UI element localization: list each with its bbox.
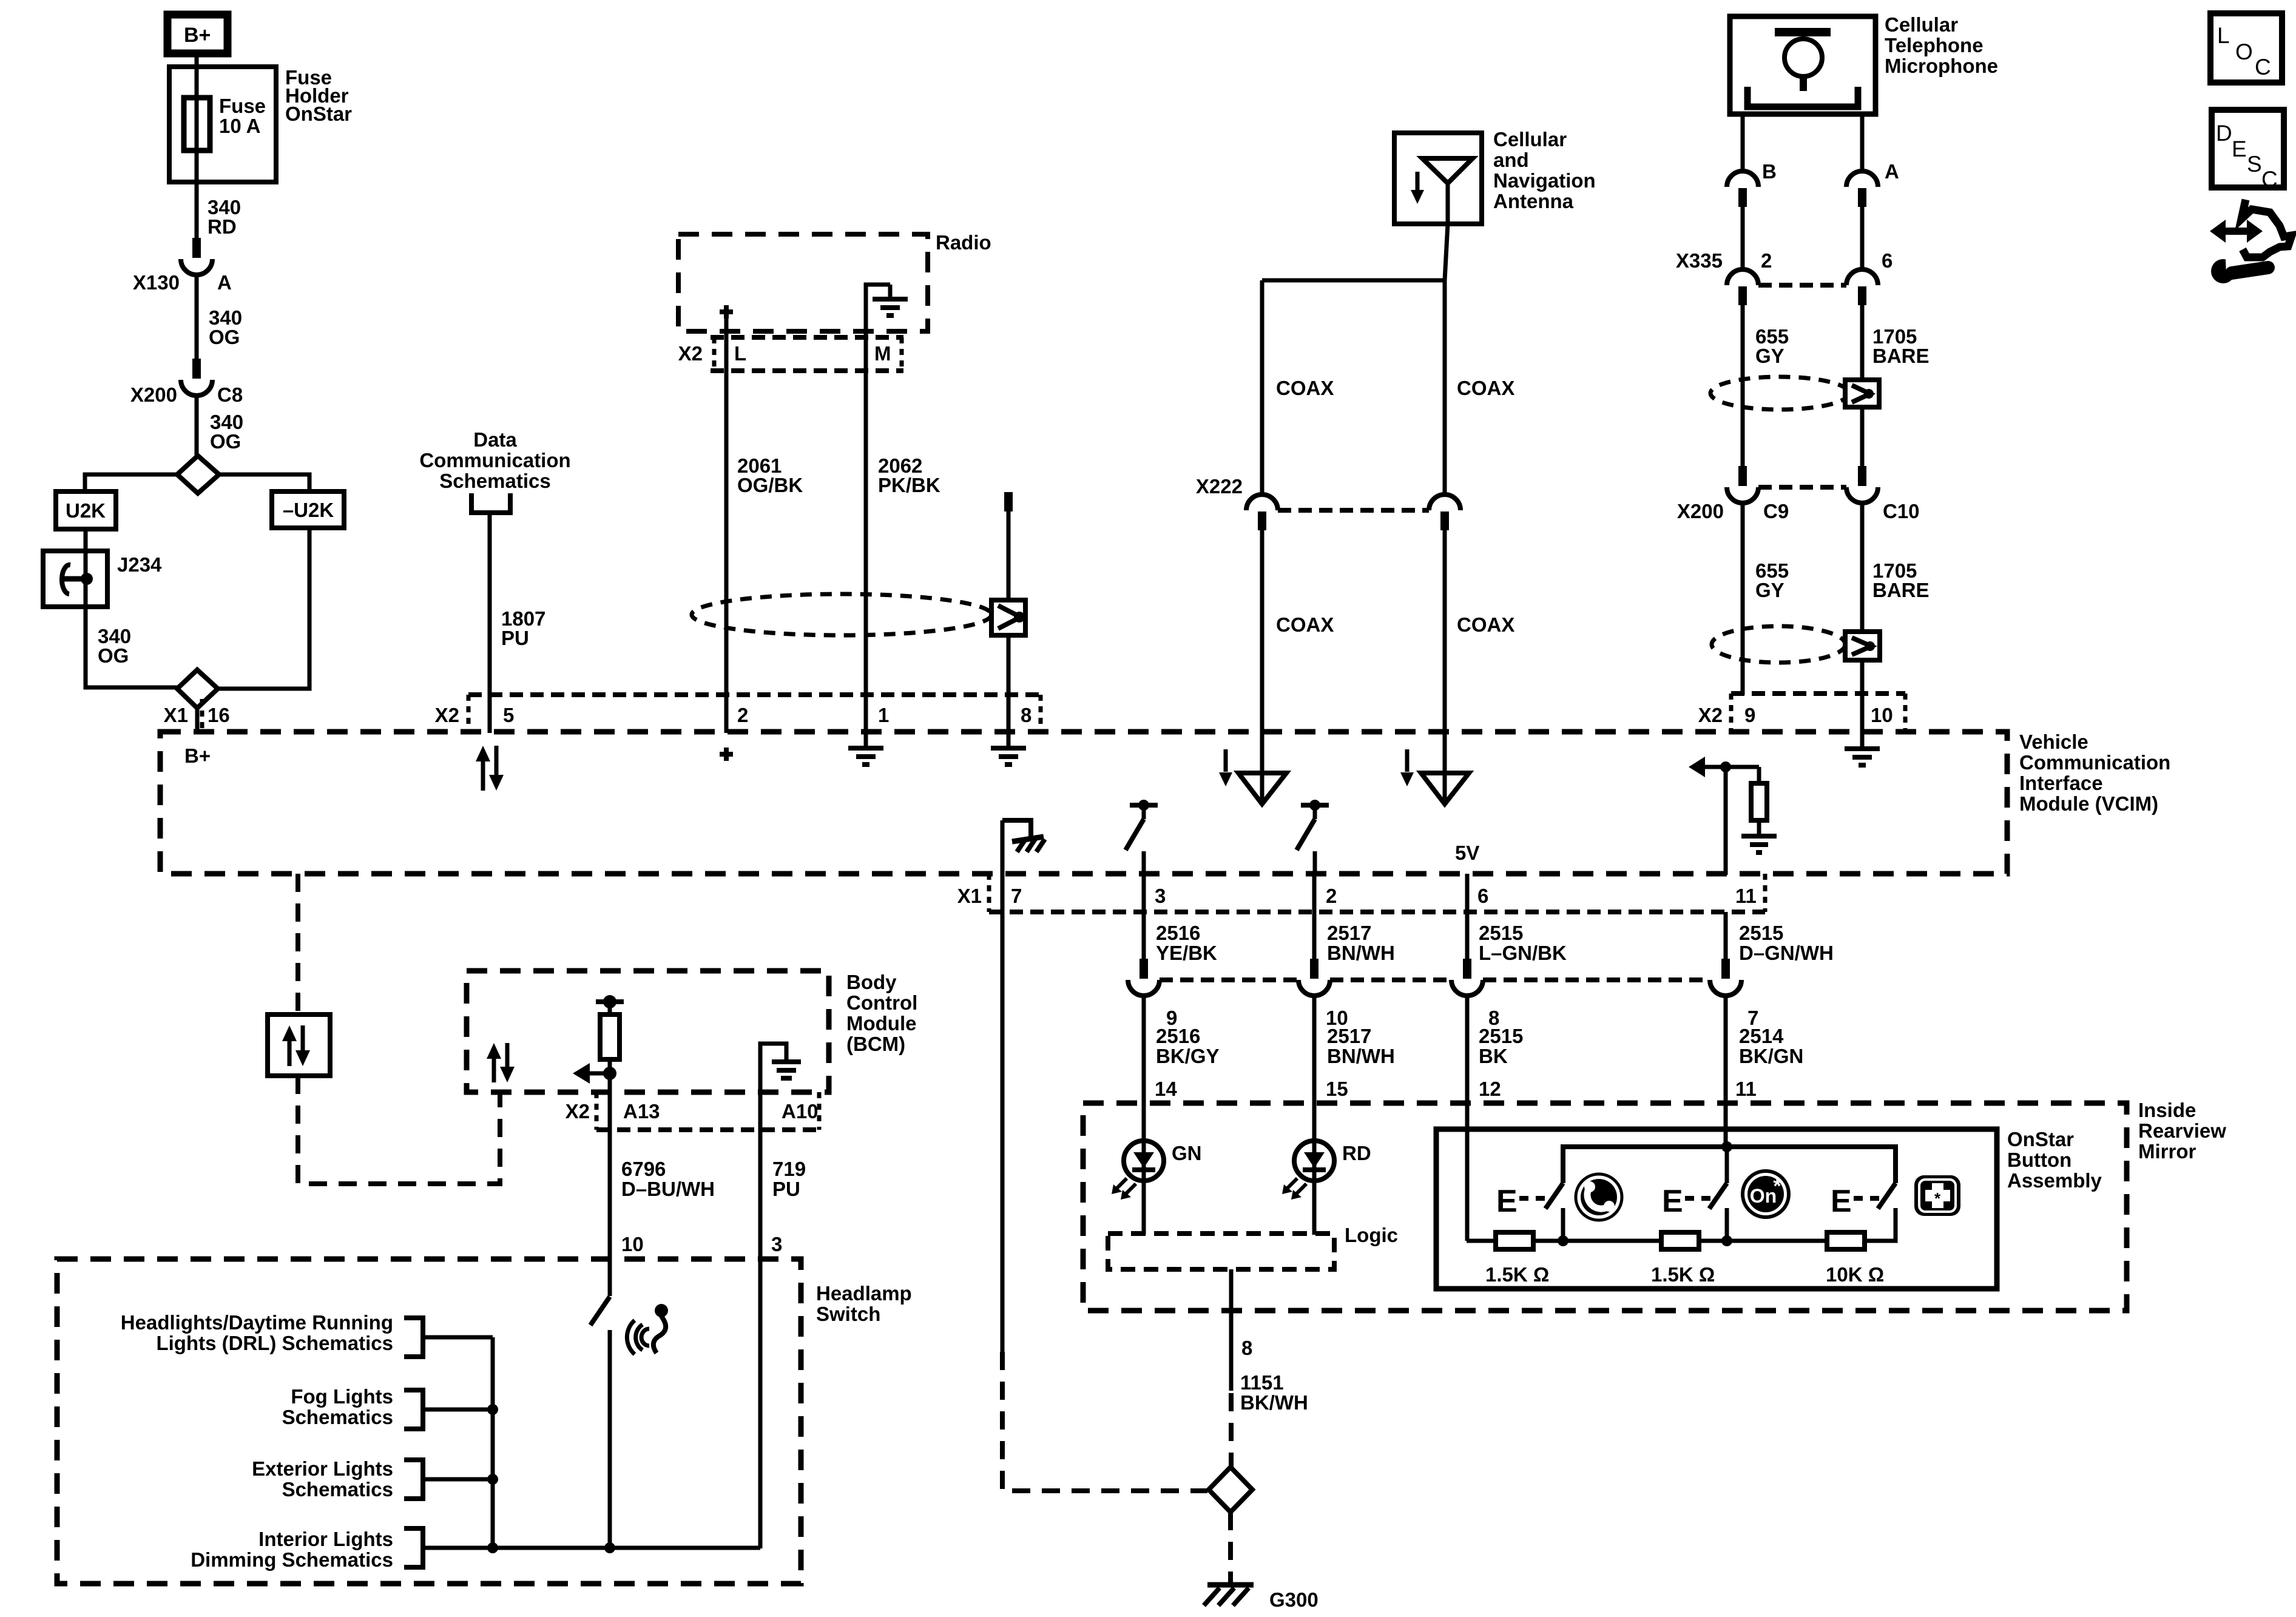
svg-text:GY: GY: [1755, 579, 1784, 601]
wire B to X335: [1741, 207, 1745, 269]
svg-text:*: *: [1934, 1189, 1941, 1207]
wire 6796 D-BU/WH: [608, 1130, 612, 1296]
connector pin7b: [1721, 959, 1730, 979]
svg-text:OG/BK: OG/BK: [737, 474, 803, 496]
emergency cross icon: [1914, 1175, 1960, 1216]
svg-text:12: 12: [1479, 1078, 1501, 1100]
antenna terminal triangle left: [1260, 732, 1264, 802]
svg-text:2: 2: [1761, 249, 1772, 272]
svg-text:Navigation: Navigation: [1493, 169, 1596, 192]
svg-text:Logic: Logic: [1345, 1224, 1398, 1246]
svg-text:X2: X2: [1698, 704, 1723, 726]
coax right upper: [1443, 280, 1447, 495]
svg-text:15: 15: [1326, 1078, 1348, 1100]
wire 2516 YE/BK: [1142, 874, 1146, 960]
bus vertical: [491, 1337, 495, 1548]
svg-text:E: E: [1831, 1184, 1852, 1219]
LED RD emission arrows: [1285, 1178, 1297, 1190]
svg-text:7: 7: [1011, 885, 1022, 907]
wire X200 to splice: [195, 395, 199, 456]
wire 1705 BARE upper: [1860, 305, 1865, 380]
svg-text:E: E: [1496, 1184, 1518, 1219]
inside rearview mirror dashed box: [1083, 1103, 2127, 1311]
svg-text:C: C: [2255, 55, 2271, 79]
shield ellipse lower: [1712, 626, 1845, 663]
button bus top rail: [1563, 1147, 1896, 1183]
svg-text:BN/WH: BN/WH: [1327, 1045, 1395, 1067]
svg-text:Fuse: Fuse: [219, 95, 266, 117]
svg-text:Button: Button: [2007, 1149, 2071, 1171]
wire logic output 8: [1229, 1269, 1234, 1391]
svg-text:Switch: Switch: [816, 1303, 880, 1325]
svg-text:Communication: Communication: [419, 449, 570, 471]
wire splice to VCIM X1-16: [195, 708, 200, 733]
fuse F1 10A element: [184, 98, 210, 150]
svg-text:A: A: [1885, 160, 1899, 183]
svg-text:L: L: [734, 342, 746, 365]
svg-text:Lights (DRL) Schematics: Lights (DRL) Schematics: [156, 1332, 393, 1354]
resistor R3 10K: [1827, 1232, 1865, 1249]
svg-text:B+: B+: [184, 24, 211, 47]
wire -U2K to lower splice: [218, 528, 309, 689]
radio ground symbol: [866, 285, 890, 331]
svg-text:C10: C10: [1883, 500, 1920, 522]
wire 655 GY upper: [1741, 305, 1745, 468]
wire through fuse holder: [195, 67, 199, 238]
svg-text:O: O: [2235, 39, 2253, 64]
radio X2 connector box: [711, 335, 903, 340]
coax left lower: [1260, 530, 1264, 733]
antenna terminal triangle right: [1443, 732, 1447, 802]
wire A13 inside BCM: [608, 1073, 612, 1131]
svg-text:Body: Body: [846, 971, 897, 993]
dashed link VCIM to arrows box: [295, 874, 300, 1014]
svg-text:2515: 2515: [1739, 922, 1783, 944]
shield ellipse upper: [1710, 377, 1849, 410]
body control module dashed box: [467, 971, 829, 1092]
wire 8 antenna lead terminal: [1004, 492, 1013, 511]
resistor R1 1.5K: [1496, 1232, 1533, 1249]
svg-text:Interface: Interface: [2019, 772, 2103, 794]
wire pin12 to bus: [1465, 1129, 1470, 1241]
ground inside VCIM pin1: [864, 732, 868, 748]
svg-text:2515: 2515: [1479, 1025, 1523, 1047]
svg-text:11: 11: [1735, 885, 1757, 907]
svg-text:5V: 5V: [1455, 842, 1479, 864]
splice S2 diamond: [177, 670, 218, 708]
svg-text:C9: C9: [1763, 500, 1789, 522]
svg-text:Mirror: Mirror: [2138, 1140, 2196, 1163]
wire 719 PU: [758, 1130, 763, 1548]
ground inside VCIM pin10: [1860, 732, 1865, 749]
svg-text:Cellular: Cellular: [1493, 128, 1567, 150]
svg-text:14: 14: [1155, 1078, 1177, 1100]
svg-text:OG: OG: [209, 326, 240, 348]
antenna terminal arrow left: [1224, 749, 1228, 772]
svg-text:719: 719: [772, 1158, 806, 1180]
svg-text:6: 6: [1882, 249, 1893, 272]
svg-text:X222: X222: [1196, 475, 1243, 498]
ground inside VCIM pin8: [1007, 732, 1011, 748]
svg-text:Rearview: Rearview: [2138, 1119, 2226, 1142]
dashed link arrows box to BCM: [298, 1076, 500, 1184]
connector pin10: [1310, 959, 1319, 979]
svg-text:6796: 6796: [621, 1158, 666, 1180]
ground G300: [1207, 1582, 1254, 1588]
radio dashed box: [678, 234, 928, 331]
svg-text:Exterior Lights: Exterior Lights: [252, 1457, 393, 1480]
svg-text:3: 3: [1155, 885, 1166, 907]
svg-text:X2: X2: [566, 1100, 590, 1122]
svg-text:BK/GN: BK/GN: [1739, 1045, 1803, 1067]
svg-text:11: 11: [1735, 1078, 1757, 1100]
continuation arrows box: [268, 1014, 330, 1076]
svg-text:Vehicle: Vehicle: [2019, 731, 2088, 753]
svg-text:Headlamp: Headlamp: [816, 1282, 912, 1305]
wire to mirror pin12: [1465, 995, 1470, 1241]
wire BARE to X2 pin10: [1860, 660, 1865, 733]
svg-text:BN/WH: BN/WH: [1327, 942, 1395, 964]
shield drain connector box: [991, 600, 1025, 635]
svg-text:2515: 2515: [1479, 922, 1523, 944]
wire to mirror pin14: [1142, 995, 1146, 1235]
svg-text:2516: 2516: [1156, 922, 1200, 944]
wire B+ to fuse holder: [195, 53, 199, 68]
svg-text:OG: OG: [210, 430, 241, 453]
dashed wire pin7 branch: [1002, 1352, 1207, 1491]
X1-16 dotted separator: [200, 699, 204, 732]
svg-text:E: E: [2232, 137, 2247, 161]
wire 2515 L-GN/BK: [1465, 874, 1470, 960]
svg-text:Headlights/Daytime Running: Headlights/Daytime Running: [121, 1311, 393, 1334]
wire to mirror pin11: [1724, 995, 1728, 1147]
svg-text:C8: C8: [217, 383, 243, 406]
svg-text:Schematics: Schematics: [282, 1478, 393, 1501]
svg-text:YE/BK: YE/BK: [1156, 942, 1217, 964]
connector mic B: [1727, 171, 1758, 187]
connector mic A: [1846, 171, 1878, 187]
up-down arrows inside VCIM pin5: [481, 759, 485, 791]
antenna coax split: [1445, 224, 1448, 280]
plus symbol in radio: [720, 309, 733, 314]
svg-text:PU: PU: [501, 627, 529, 649]
svg-text:2514: 2514: [1739, 1025, 1784, 1047]
VCIM pullup resistor: [1757, 767, 1761, 783]
coax left upper: [1260, 280, 1264, 495]
svg-text:3: 3: [771, 1233, 782, 1255]
svg-text:RD: RD: [1342, 1142, 1371, 1164]
headlamp switch blade: [590, 1297, 610, 1325]
connector X335 pin2: [1727, 269, 1758, 285]
svg-text:2517: 2517: [1327, 1025, 1371, 1047]
wire radio L 2061: [724, 319, 729, 733]
connector X130 pin A: [192, 238, 201, 258]
wire A to X335: [1860, 207, 1865, 269]
wire X130 to X200: [195, 274, 199, 359]
svg-text:M: M: [874, 342, 891, 365]
off-page bracket DRL: [404, 1318, 423, 1357]
svg-text:1.5K Ω: 1.5K Ω: [1651, 1263, 1715, 1286]
VCIM module dashed box: [160, 732, 2007, 874]
svg-text:1: 1: [878, 704, 889, 726]
svg-text:Microphone: Microphone: [1885, 55, 1998, 77]
DESC reference box: [2212, 110, 2284, 187]
connector X335 pin6: [1846, 269, 1878, 285]
svg-text:L–GN/BK: L–GN/BK: [1479, 942, 1567, 964]
svg-text:10K Ω: 10K Ω: [1826, 1263, 1884, 1286]
logic dashed box: [1108, 1234, 1334, 1269]
svg-text:9: 9: [1744, 704, 1755, 726]
antenna terminal arrow right: [1405, 749, 1410, 772]
svg-text:OnStar: OnStar: [285, 103, 352, 125]
svg-text:*: *: [1773, 1175, 1781, 1198]
svg-text:A13: A13: [623, 1100, 660, 1122]
wire J234 to lower splice: [86, 607, 177, 687]
wire U2K to J234: [84, 529, 88, 552]
wire radio M 2062: [864, 331, 868, 733]
cellular telephone microphone box: [1730, 16, 1876, 114]
svg-text:Data: Data: [473, 428, 517, 451]
VCIM X1 connector strip: [989, 910, 1765, 914]
phone button icon: [1576, 1174, 1622, 1220]
VCIM switch pin3: [1130, 803, 1158, 808]
wire pin11 inside VCIM: [1724, 767, 1728, 875]
VCIM X2 connector strip: [468, 692, 1041, 697]
antenna symbol: [1422, 158, 1473, 183]
svg-text:D: D: [2216, 121, 2232, 146]
wire fog to bus: [423, 1408, 493, 1412]
wire 2515 D-GN/WH: [1724, 912, 1728, 960]
X200 dashed link: [1758, 485, 1846, 490]
svg-text:X335: X335: [1676, 249, 1723, 272]
wire 8 to VCIM: [1007, 511, 1011, 733]
dashed wire splice to G300: [1228, 1512, 1233, 1584]
svg-text:8: 8: [1241, 1337, 1252, 1359]
svg-text:X200: X200: [130, 383, 177, 406]
svg-text:BK/WH: BK/WH: [1240, 1391, 1308, 1414]
VCIM pin7 ground hook: [1002, 820, 1031, 838]
svg-text:10: 10: [1871, 704, 1893, 726]
svg-text:D–BU/WH: D–BU/WH: [621, 1178, 715, 1200]
svg-text:5: 5: [503, 704, 514, 726]
svg-text:GN: GN: [1172, 1142, 1202, 1164]
LOC reference box: [2210, 13, 2282, 83]
battery feed B+ symbol: [167, 15, 228, 53]
tools icon double arrow: [2223, 228, 2250, 235]
VCIM switch pin2: [1301, 803, 1329, 808]
splice S3 diamond: [1209, 1467, 1252, 1512]
mid connector dashed link: [1160, 977, 1298, 982]
svg-text:E: E: [1662, 1184, 1683, 1219]
svg-text:BARE: BARE: [1872, 579, 1930, 601]
svg-text:Inside: Inside: [2138, 1099, 2196, 1121]
svg-text:C: C: [2261, 167, 2278, 192]
svg-text:2: 2: [737, 704, 748, 726]
plus symbol inside VCIM pin2: [720, 752, 733, 757]
svg-text:L: L: [2217, 23, 2230, 48]
off-page connector bracket: [471, 493, 510, 513]
LED GN emission arrows: [1115, 1178, 1127, 1190]
svg-text:COAX: COAX: [1276, 613, 1334, 636]
X222 dashed link: [1278, 508, 1429, 513]
svg-text:A: A: [217, 271, 232, 294]
svg-text:and: and: [1493, 149, 1529, 171]
up-down arrows inside BCM: [492, 1056, 496, 1082]
fuse block U2K: [56, 491, 116, 529]
svg-text:Module (VCIM): Module (VCIM): [2019, 792, 2158, 815]
svg-text:PK/BK: PK/BK: [878, 474, 940, 496]
VCIM pullup ground: [1741, 834, 1777, 839]
twisted pair shield ellipse: [692, 594, 991, 635]
wire splice to U2K branch: [85, 474, 177, 491]
wire DRL to bus: [423, 1335, 493, 1340]
OnStar button icon: [1743, 1171, 1789, 1217]
coax right lower: [1443, 530, 1447, 733]
svg-text:COAX: COAX: [1457, 377, 1514, 399]
svg-text:Dimming Schematics: Dimming Schematics: [191, 1548, 393, 1571]
svg-text:X1: X1: [164, 704, 188, 726]
svg-text:X1: X1: [957, 885, 982, 907]
svg-text:J234: J234: [117, 553, 162, 576]
wire mic B: [1741, 114, 1745, 171]
svg-text:G300: G300: [1269, 1588, 1319, 1611]
connector pin9: [1140, 959, 1148, 979]
svg-text:8: 8: [1021, 704, 1032, 726]
VCIM pin11 pullup arrow: [1689, 757, 1705, 777]
svg-text:Cellular: Cellular: [1885, 13, 1958, 36]
svg-text:Schematics: Schematics: [282, 1406, 393, 1428]
svg-text:A10: A10: [782, 1100, 819, 1122]
svg-text:Telephone: Telephone: [1885, 34, 1984, 56]
tools icon wrench: [2211, 259, 2235, 283]
wire 655 GY lower: [1741, 502, 1745, 695]
connector X200 pin C10: [1858, 466, 1866, 486]
svg-text:1151: 1151: [1240, 1371, 1284, 1394]
connector X200 pin C9: [1738, 466, 1747, 486]
svg-text:U2K: U2K: [66, 499, 106, 522]
svg-text:OnStar: OnStar: [2007, 1128, 2074, 1150]
connector X222 left: [1246, 495, 1278, 510]
svg-text:GY: GY: [1755, 345, 1784, 367]
svg-text:Fog Lights: Fog Lights: [291, 1385, 393, 1408]
svg-text:B+: B+: [184, 744, 211, 767]
svg-text:BK/GY: BK/GY: [1156, 1045, 1220, 1067]
connector X222 right: [1429, 495, 1460, 510]
fuse holder box: [169, 67, 276, 182]
wire exterior to bus: [423, 1477, 493, 1482]
wire splice to -U2K branch: [219, 474, 309, 491]
off-page bracket interior: [404, 1528, 423, 1567]
svg-text:(BCM): (BCM): [846, 1033, 905, 1055]
splice S1 diamond: [177, 456, 219, 493]
connector J234 box: [43, 551, 107, 607]
svg-text:X2: X2: [435, 704, 459, 726]
svg-text:10: 10: [621, 1233, 644, 1255]
dashed wire 1151 to splice: [1229, 1393, 1234, 1468]
svg-text:6: 6: [1477, 885, 1488, 907]
svg-text:D–GN/WH: D–GN/WH: [1739, 942, 1834, 964]
BCM ground A10: [760, 1044, 786, 1130]
svg-text:10 A: 10 A: [219, 115, 260, 137]
svg-text:S: S: [2247, 152, 2262, 177]
svg-text:2517: 2517: [1327, 922, 1371, 944]
off-page bracket fog: [404, 1390, 423, 1429]
connector X200 pin C8: [192, 359, 201, 379]
X335 dashed link: [1758, 283, 1846, 288]
shield drain box lower: [1845, 632, 1880, 660]
svg-text:Control: Control: [846, 991, 917, 1014]
VCIM X2 strip right: [1731, 691, 1905, 696]
svg-text:2: 2: [1326, 885, 1337, 907]
wire to mirror pin15: [1312, 995, 1317, 1235]
wire 1705 BARE lower: [1860, 502, 1865, 632]
svg-text:BK: BK: [1479, 1045, 1508, 1067]
svg-text:PU: PU: [772, 1178, 800, 1200]
svg-text:OG: OG: [98, 644, 129, 667]
svg-text:16: 16: [208, 704, 230, 726]
audible icon: [627, 1320, 635, 1354]
svg-text:COAX: COAX: [1457, 613, 1514, 636]
svg-text:COAX: COAX: [1276, 377, 1334, 399]
LED RD: [1294, 1141, 1334, 1181]
svg-text:Module: Module: [846, 1012, 916, 1035]
svg-text:B: B: [1762, 160, 1777, 183]
J234 latch symbol: [81, 573, 93, 585]
BCM X2 connector strip: [596, 1127, 819, 1132]
svg-text:X200: X200: [1677, 500, 1724, 522]
svg-text:Radio: Radio: [936, 231, 991, 254]
OnStar button assembly box: [1436, 1129, 1997, 1289]
headlamp switch dashed box: [57, 1259, 801, 1584]
BCM output driver: [596, 999, 624, 1004]
svg-text:X2: X2: [678, 342, 703, 365]
resistor R2 1.5K: [1661, 1232, 1699, 1249]
fuse block -U2K: [272, 491, 344, 528]
button bus bottom rail: [1467, 1239, 1496, 1243]
off-page bracket exterior: [404, 1460, 423, 1499]
cellular and navigation antenna box: [1394, 133, 1482, 224]
microphone symbol: [1775, 28, 1831, 36]
wire 1807 PU: [488, 513, 492, 733]
svg-text:1.5K Ω: 1.5K Ω: [1485, 1263, 1549, 1286]
wire pin 7: [1001, 820, 1005, 1352]
svg-text:2516: 2516: [1156, 1025, 1200, 1047]
svg-text:Interior Lights: Interior Lights: [258, 1528, 393, 1550]
svg-text:BARE: BARE: [1872, 345, 1930, 367]
wire 2517 BN/WH: [1312, 874, 1317, 960]
svg-text:RD: RD: [208, 215, 237, 238]
connector pin8: [1463, 959, 1471, 979]
svg-text:Communication: Communication: [2019, 751, 2170, 774]
LED GN: [1124, 1141, 1164, 1181]
svg-text:X130: X130: [133, 271, 180, 294]
wire 1705 BARE to X200: [1860, 407, 1865, 468]
svg-text:–U2K: –U2K: [283, 499, 334, 521]
svg-text:Antenna: Antenna: [1493, 190, 1574, 212]
wire interior dimming bus: [423, 1546, 760, 1550]
wire mic A: [1860, 114, 1865, 171]
shield drain box upper: [1845, 380, 1879, 407]
tools icon outline: [2241, 200, 2292, 257]
svg-text:Schematics: Schematics: [439, 470, 550, 492]
svg-text:Assembly: Assembly: [2007, 1169, 2102, 1192]
